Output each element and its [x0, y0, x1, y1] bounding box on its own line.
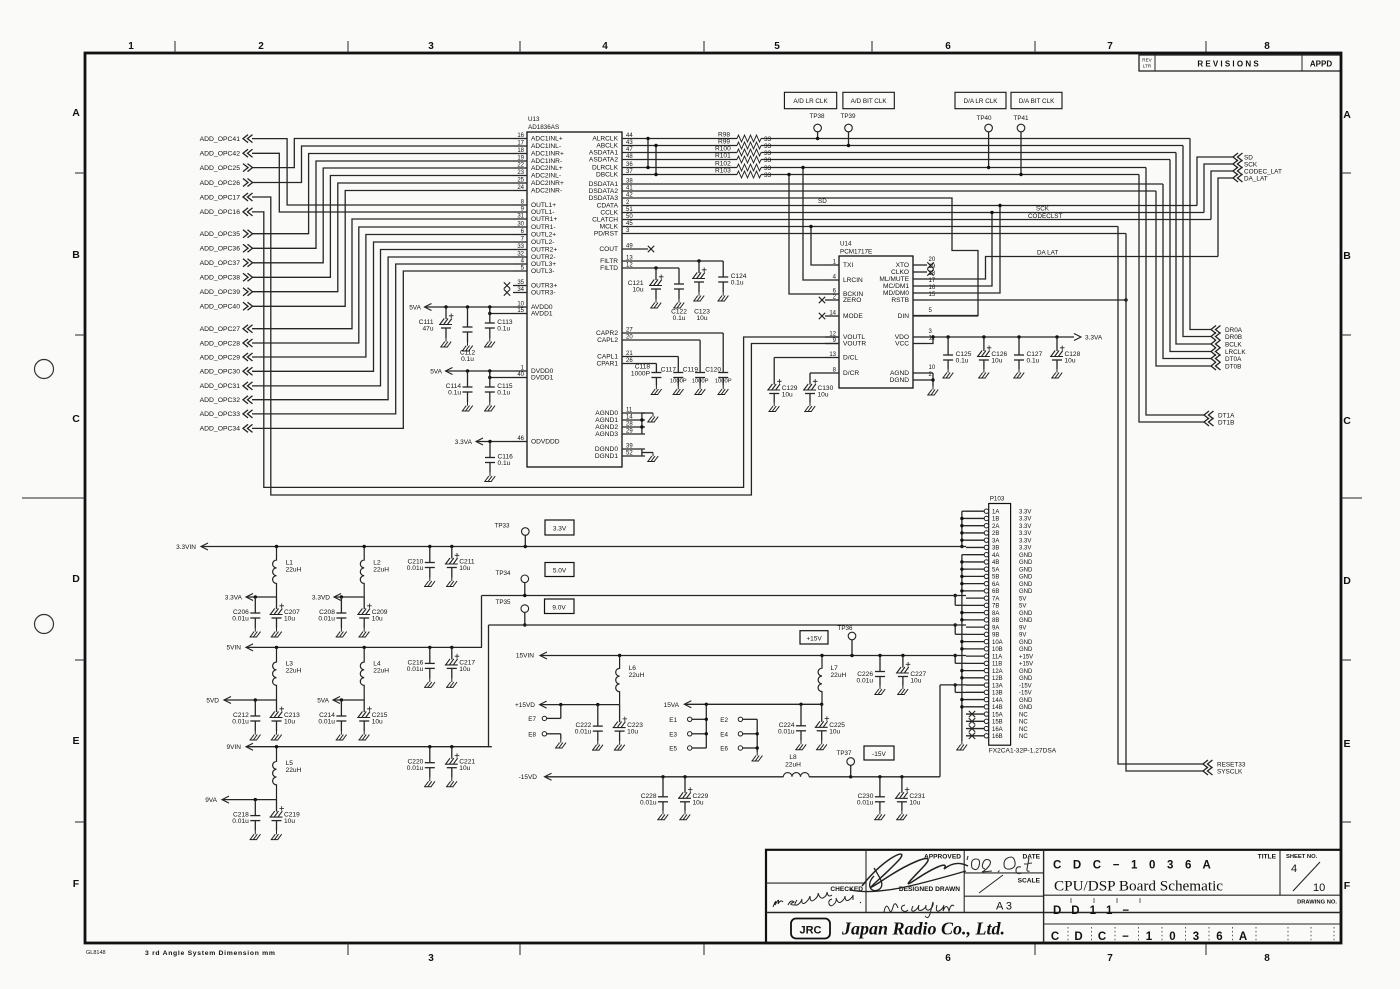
power rail 5V to P103 [482, 595, 967, 597]
svg-text:ADC2INL-: ADC2INL- [531, 173, 561, 180]
capacitor C207 10u [276, 597, 278, 609]
svg-text:0.01u: 0.01u [318, 719, 335, 726]
wire U14 D/CL to C129 [774, 357, 825, 359]
svg-text:R E V I S I O N S: R E V I S I O N S [1197, 60, 1259, 69]
svg-text:DLRCLK: DLRCLK [592, 165, 619, 172]
port DR0B [1211, 333, 1221, 341]
wire ADD_OPC33 to U13 pin 4 OUTL3+ [252, 264, 513, 414]
svg-text:DT0B: DT0B [1225, 364, 1241, 371]
wire ADD_OPC38 to U13 pin 23 ADC2INL- [252, 176, 513, 278]
wire 5VD row [224, 699, 277, 701]
svg-text:TP41: TP41 [1013, 115, 1029, 122]
svg-text:14B: 14B [992, 705, 1003, 711]
svg-text:OUTL1+: OUTL1+ [531, 202, 556, 209]
svg-text:45: 45 [626, 221, 633, 227]
capacitor C130 10u [809, 373, 811, 385]
svg-text:31: 31 [517, 214, 524, 220]
svg-text:DGND: DGND [890, 377, 910, 384]
svg-text:CLATCH: CLATCH [592, 217, 618, 224]
svg-text:OUTR1+: OUTR1+ [531, 216, 557, 223]
svg-text:TP33: TP33 [494, 523, 510, 530]
svg-text:E6: E6 [720, 746, 728, 753]
svg-text:ADD_OPC26: ADD_OPC26 [200, 180, 241, 187]
svg-text:L2: L2 [373, 560, 381, 567]
wire U14 VDO 3.3VA rail [927, 336, 1074, 338]
svg-text:R99: R99 [718, 139, 730, 146]
port DR0A [1211, 326, 1221, 334]
wire ADD_OPC40 to U13 pin 24 ADC2INR- [252, 191, 513, 307]
capacitor C229 10u [684, 777, 686, 793]
svg-text:C D C − 1 0 3 6 A: C D C − 1 0 3 6 A [1053, 860, 1215, 872]
svg-text:1: 1 [128, 41, 134, 52]
svg-text:DSDATA1: DSDATA1 [589, 181, 619, 188]
svg-text:0.1u: 0.1u [1027, 358, 1040, 365]
svg-text:DSDATA2: DSDATA2 [589, 188, 619, 195]
svg-text:12B: 12B [992, 676, 1003, 682]
capacitor C122 0.1u [678, 268, 680, 284]
wire U14 VCC join [927, 337, 933, 344]
svg-text:26: 26 [626, 358, 633, 364]
svg-text:2: 2 [258, 41, 264, 52]
wire U14 LRCIN from DLRCLK row [803, 168, 825, 281]
capacitor C116 0.1u [489, 442, 491, 458]
inductor L1 22uH [273, 547, 277, 598]
capacitor C121 10u [655, 268, 657, 280]
svg-text:ADD_OPC38: ADD_OPC38 [200, 275, 241, 282]
svg-text:ZERO: ZERO [843, 297, 861, 304]
svg-text:B: B [1343, 250, 1351, 262]
svg-text:29: 29 [626, 429, 633, 435]
svg-text:3.3V: 3.3V [1019, 546, 1031, 552]
capacitor C113 0.1u [489, 307, 491, 323]
svg-text:15A: 15A [992, 712, 1003, 718]
svg-text:1000P: 1000P [670, 379, 687, 385]
connector P103 body [989, 504, 1011, 746]
svg-text:42: 42 [626, 193, 633, 199]
svg-text:AD1836AS: AD1836AS [528, 124, 559, 131]
svg-text:ABCLK: ABCLK [596, 143, 618, 150]
svg-text:ADD_OPC16: ADD_OPC16 [200, 209, 241, 216]
inductor L3 22uH [273, 647, 277, 700]
wire U14 RSTB to reset vertical [927, 299, 1126, 301]
wire 9VA row [222, 799, 277, 801]
svg-text:C119: C119 [683, 367, 699, 374]
svg-text:10u: 10u [372, 616, 383, 623]
svg-text:DT0A: DT0A [1225, 356, 1242, 363]
svg-text:0.01u: 0.01u [857, 799, 874, 806]
wire ALRCLK to DR0A [1190, 139, 1211, 330]
capacitor C115 0.1u [489, 371, 491, 387]
svg-text:ASDATA2: ASDATA2 [589, 157, 618, 164]
svg-text:D: D [72, 573, 80, 585]
svg-text:3.3V: 3.3V [1019, 517, 1031, 523]
svg-text:-15VD: -15VD [519, 774, 538, 781]
capacitor C123 10u [698, 261, 700, 273]
svg-text:3.3V: 3.3V [1019, 538, 1031, 544]
svg-text:E1: E1 [669, 717, 677, 724]
U13 AGND pins bus to ground [641, 413, 643, 434]
wire CLATCH row (CODECLST) [645, 219, 1211, 221]
wire U14 ML/MUTE to DA_LAT line [927, 257, 1218, 280]
svg-text:ASDATA1: ASDATA1 [589, 150, 618, 157]
svg-text:TXI: TXI [843, 262, 853, 269]
svg-text:BCLK: BCLK [1225, 342, 1242, 349]
svg-text:CODEC_LAT: CODEC_LAT [1244, 169, 1282, 176]
svg-text:LRCLK: LRCLK [1225, 349, 1246, 356]
svg-text:2B: 2B [992, 531, 999, 537]
wire ASDATA2 row [645, 159, 737, 161]
svg-text:ADD_OPC28: ADD_OPC28 [200, 340, 241, 347]
capacitor C111 47u [445, 307, 447, 319]
wire +15VD row [540, 704, 620, 706]
svg-text:27: 27 [626, 328, 633, 334]
capacitor C209 10u [363, 597, 365, 609]
svg-text:5VD: 5VD [206, 697, 219, 704]
port BCLK [1211, 340, 1221, 348]
svg-text:TP35: TP35 [495, 599, 511, 606]
svg-text:ADD_OPC30: ADD_OPC30 [200, 369, 241, 376]
wire 3.3VA to ODVDDD pin 46 [476, 441, 513, 443]
wire E1 E3 E5 bus to 15VA [692, 718, 706, 720]
svg-text:3.3V: 3.3V [1019, 531, 1031, 537]
capacitor C120 1000P [722, 333, 724, 373]
svg-text:D/CR: D/CR [843, 370, 859, 377]
svg-text:-15V: -15V [1019, 683, 1032, 689]
svg-text:0.1u: 0.1u [497, 326, 510, 333]
capacitor C219 10u [276, 800, 278, 812]
svg-text:ADC2INR+: ADC2INR+ [531, 180, 564, 187]
wire DLRCLK to DT1A [1146, 168, 1204, 416]
svg-text:E2: E2 [720, 717, 728, 724]
capacitor C210 0.01u [429, 547, 431, 563]
wire U14 TXI from MCLK row [811, 227, 825, 266]
wire 5VA to DVDD0 pin 1 [446, 370, 514, 372]
svg-text:5V: 5V [1019, 596, 1026, 602]
wire ADD_OPC30 to U13 pin 7 OUTL2- [252, 242, 513, 371]
U14 left pin stubs numbers and names [825, 264, 839, 266]
svg-text:10u: 10u [284, 616, 295, 623]
capacitor C221 10u [451, 747, 453, 759]
revisions strip [1139, 55, 1341, 71]
svg-text:15VIN: 15VIN [516, 653, 534, 660]
svg-text:10u: 10u [782, 392, 793, 399]
svg-text:22uH: 22uH [286, 767, 302, 774]
wire E7 to +15VD [547, 717, 561, 719]
svg-text:CAPR2: CAPR2 [596, 330, 618, 337]
dotted cell separators [1068, 927, 1334, 941]
svg-text:41: 41 [626, 186, 633, 192]
svg-text:TITLE: TITLE [1258, 854, 1277, 861]
wire 3.3VD row [334, 596, 364, 598]
wire ADD_OPC35 to U13 pin 18 ADC1INR+ [252, 154, 513, 234]
svg-text:SD: SD [1244, 155, 1253, 162]
svg-text:10u: 10u [991, 358, 1002, 365]
capacitor C216 0.01u [429, 647, 431, 663]
svg-text:24: 24 [517, 185, 524, 191]
svg-text:10u: 10u [459, 565, 470, 572]
svg-text:CHECKED: CHECKED [830, 886, 863, 893]
wire MCLK to RESET33 port [1118, 227, 1203, 765]
wire ALRCLK row with jumper to DLRCLK [645, 138, 737, 140]
svg-text:AGND: AGND [890, 370, 909, 377]
svg-text:CDATA: CDATA [597, 203, 619, 210]
svg-text:33: 33 [517, 244, 524, 250]
wire PD/RST row [645, 233, 1126, 235]
svg-text:0.01u: 0.01u [856, 678, 873, 685]
svg-text:OUTR2+: OUTR2+ [531, 247, 557, 254]
svg-text:FILTD: FILTD [600, 265, 618, 272]
svg-text:1000P: 1000P [692, 379, 709, 385]
svg-text:46: 46 [517, 436, 524, 442]
wire E2 E4 E6 bus to ground [743, 718, 758, 720]
wire AVDD1 pin 15 branch [490, 307, 513, 314]
svg-text:10u: 10u [696, 315, 707, 322]
svg-text:+15V: +15V [1019, 654, 1033, 660]
svg-text:5V: 5V [1019, 604, 1026, 610]
svg-text:1B: 1B [992, 517, 999, 523]
svg-text:39: 39 [626, 444, 633, 450]
svg-text:D D 1 1 −: D D 1 1 − [1053, 905, 1133, 917]
capacitor C223 10u [619, 705, 621, 723]
svg-text:35: 35 [517, 280, 524, 286]
svg-text:7: 7 [1107, 41, 1113, 52]
svg-text:8: 8 [1264, 41, 1270, 52]
wire ADD_OPC32 to U13 pin 32 OUTR2- [252, 257, 513, 400]
svg-text:22: 22 [517, 163, 524, 169]
svg-text:13: 13 [626, 256, 633, 262]
svg-text:L1: L1 [286, 560, 294, 567]
svg-text:L6: L6 [629, 665, 637, 672]
svg-text:ADD_OPC25: ADD_OPC25 [200, 165, 241, 172]
svg-text:OUTR3+: OUTR3+ [531, 283, 557, 290]
svg-text:MODE: MODE [843, 313, 863, 320]
svg-text:DR0A: DR0A [1225, 327, 1243, 334]
capacitor C224 0.01u [800, 704, 802, 726]
svg-text:9A: 9A [992, 625, 999, 631]
svg-text:RSTB: RSTB [891, 297, 909, 304]
svg-text:14A: 14A [992, 698, 1003, 704]
svg-text:GND: GND [1019, 611, 1033, 617]
label box +15V [800, 631, 828, 644]
svg-text:22uH: 22uH [831, 672, 847, 679]
svg-text:33: 33 [764, 150, 772, 157]
capacitor C222 0.01u [597, 705, 599, 727]
svg-text:10u: 10u [632, 287, 643, 294]
svg-text:14: 14 [829, 311, 836, 317]
svg-text:A: A [1343, 109, 1351, 121]
svg-text:DBCLK: DBCLK [596, 172, 619, 179]
svg-text:11: 11 [626, 408, 633, 414]
svg-text:12A: 12A [992, 669, 1003, 675]
svg-text:A 3: A 3 [996, 901, 1012, 913]
svg-text:5.0V: 5.0V [553, 568, 567, 575]
title block inner lines [865, 850, 867, 913]
IC U14 PCM1717E body [839, 256, 913, 388]
svg-text:22uH: 22uH [373, 668, 389, 675]
svg-text:3: 3 [1193, 931, 1199, 943]
svg-text:-15V: -15V [872, 751, 886, 758]
capacitor C212 0.01u [254, 700, 256, 716]
label box D/A BIT CLK [1011, 92, 1062, 108]
svg-text:A/D BIT CLK: A/D BIT CLK [851, 98, 888, 105]
capacitor C227 10u [902, 656, 904, 668]
svg-text:FILTR: FILTR [600, 258, 618, 265]
svg-text:DIN: DIN [898, 313, 910, 320]
U13 DGND pins bus to ground [641, 449, 643, 456]
svg-text:SCK: SCK [1244, 162, 1258, 169]
svg-text:1000P: 1000P [631, 371, 651, 378]
svg-text:SD: SD [818, 198, 827, 205]
svg-text:5VA: 5VA [317, 697, 329, 704]
svg-text:50: 50 [626, 214, 633, 220]
svg-text:4: 4 [602, 41, 608, 52]
svg-text:AGND3: AGND3 [595, 431, 618, 438]
checked signature K Nakamura [773, 892, 861, 907]
label box D/A LR CLK [955, 92, 1006, 108]
wire CDATA to SD port [1197, 157, 1233, 206]
U13 no-connect X pins OUTR3+/-, COUT [504, 282, 510, 288]
svg-text:ADC1INL-: ADC1INL- [531, 143, 561, 150]
wire DVDD1 pin 40 branch [490, 371, 513, 378]
wire DBCLK to DT1B [1139, 175, 1204, 423]
svg-text:TP39: TP39 [840, 113, 856, 120]
svg-text:3B: 3B [992, 546, 999, 552]
svg-text:19: 19 [517, 156, 524, 162]
svg-text:22uH: 22uH [286, 668, 302, 675]
wire CAPL1 row [645, 356, 678, 358]
IC U13 AD1836AS body [527, 132, 622, 467]
svg-text:MCLK: MCLK [600, 224, 619, 231]
capacitor C114 0.1u [467, 371, 469, 387]
capacitor C215 10u [363, 700, 365, 712]
svg-text:9VIN: 9VIN [227, 744, 242, 751]
svg-text:4B: 4B [992, 560, 999, 566]
svg-text:AGND1: AGND1 [595, 417, 618, 424]
svg-text:10A: 10A [992, 640, 1003, 646]
wire CAPR2 row [645, 332, 723, 334]
svg-text:L7: L7 [831, 665, 839, 672]
svg-text:D/A LR CLK: D/A LR CLK [964, 98, 999, 105]
svg-text:SCK: SCK [1036, 206, 1050, 213]
wire DSDATA2 to DT0B [1156, 191, 1211, 366]
svg-text:13: 13 [829, 352, 836, 358]
svg-text:19: 19 [929, 264, 936, 270]
svg-text:9B: 9B [992, 633, 999, 639]
svg-text:3: 3 [428, 41, 434, 52]
svg-text:DRAWING NO.: DRAWING NO. [1297, 900, 1337, 906]
wire ADD_OPC39 to U13 pin 25 ADC2INR+ [252, 183, 513, 292]
svg-text:ADD_OPC42: ADD_OPC42 [200, 151, 241, 158]
capacitor C217 10u [451, 647, 453, 659]
wire ASDATA2 to LRCLK [1170, 160, 1211, 352]
svg-text:E: E [1343, 738, 1350, 750]
svg-text:9V: 9V [1019, 625, 1026, 631]
svg-text:L4: L4 [373, 661, 381, 668]
wire DA_LAT riser to port [1218, 178, 1233, 257]
capacitor C206 0.01u [254, 597, 256, 613]
svg-text:2A: 2A [992, 524, 999, 530]
svg-text:DSDATA3: DSDATA3 [589, 195, 619, 202]
svg-text:TP37: TP37 [836, 750, 852, 757]
port RESET33 [1203, 760, 1213, 768]
svg-text:22uH: 22uH [286, 567, 302, 574]
wire U14 MD/DM0 to CDATA row [927, 206, 1000, 294]
svg-text:E: E [72, 735, 79, 747]
capacitor C225 10u [821, 704, 823, 722]
svg-text:6: 6 [945, 953, 951, 964]
svg-text:CODECLST: CODECLST [1028, 213, 1062, 220]
svg-text:3.3VIN: 3.3VIN [176, 544, 196, 551]
power rail 9V to P103 [489, 624, 967, 626]
svg-text:−: − [1122, 931, 1129, 943]
svg-text:10: 10 [517, 302, 524, 308]
wire DSDATA1 to DT0A [1163, 184, 1211, 359]
svg-text:17: 17 [517, 141, 524, 147]
capacitor C125 0.1u [947, 337, 949, 355]
wire ADD_OPC36 to U13 pin 19 ADC1INR- [252, 161, 513, 248]
svg-text:+15V: +15V [806, 636, 822, 643]
svg-text:12: 12 [829, 332, 836, 338]
wire CAPL2 row [645, 339, 700, 341]
svg-text:DA LAT: DA LAT [1037, 250, 1058, 257]
binder hole bottom [35, 615, 54, 634]
svg-text:7A: 7A [992, 596, 999, 602]
svg-text:GND: GND [1019, 567, 1033, 573]
wire FILTR row [645, 260, 723, 262]
svg-text:5: 5 [774, 41, 780, 52]
svg-text:18: 18 [517, 148, 524, 154]
svg-text:20: 20 [929, 257, 936, 263]
svg-text:D/CL: D/CL [843, 355, 858, 362]
svg-text:DESIGNED DRAWN: DESIGNED DRAWN [899, 886, 960, 893]
capacitor C127 0.1u [1018, 337, 1020, 355]
svg-text:8: 8 [1264, 953, 1270, 964]
svg-text:10: 10 [929, 365, 936, 371]
svg-text:10: 10 [1313, 882, 1325, 894]
svg-text:Japan Radio Co., Ltd.: Japan Radio Co., Ltd. [841, 919, 1005, 939]
svg-text:NC: NC [1019, 734, 1028, 740]
svg-text:GND: GND [1019, 560, 1033, 566]
svg-text:4: 4 [1291, 863, 1297, 875]
svg-text:52: 52 [626, 451, 633, 457]
svg-text:5VA: 5VA [430, 368, 442, 375]
svg-text:38: 38 [626, 179, 633, 185]
svg-text:6B: 6B [992, 589, 999, 595]
wire 5VA to AVDD0 pin 10 [425, 306, 514, 308]
capacitor C218 0.01u [254, 800, 256, 816]
capacitor C220 0.01u [429, 747, 431, 763]
svg-text:C: C [1098, 931, 1106, 943]
svg-text:ML/MUTE: ML/MUTE [879, 276, 909, 283]
inductor L5 22uH [273, 747, 277, 800]
svg-text:GND: GND [1019, 705, 1033, 711]
capacitor C112 0.1u [467, 307, 469, 327]
svg-text:TP34: TP34 [495, 570, 511, 577]
svg-text:DGND1: DGND1 [595, 453, 618, 460]
svg-text:13A: 13A [992, 683, 1003, 689]
svg-text:R101: R101 [715, 153, 731, 160]
jumper ALRCLK-DLRCLK [647, 139, 649, 168]
svg-text:6: 6 [945, 41, 951, 52]
P103 +15V pin pair tie [954, 656, 956, 664]
wire 5VIN riser to 5V rail [481, 596, 483, 648]
svg-text:MC/DM1: MC/DM1 [883, 283, 909, 290]
svg-text:8A: 8A [992, 611, 999, 617]
svg-text:7B: 7B [992, 604, 999, 610]
svg-text:CCLK: CCLK [600, 210, 618, 217]
svg-text:ADD_OPC40: ADD_OPC40 [200, 304, 241, 311]
wire ABCLK to DR0B [1183, 146, 1211, 337]
